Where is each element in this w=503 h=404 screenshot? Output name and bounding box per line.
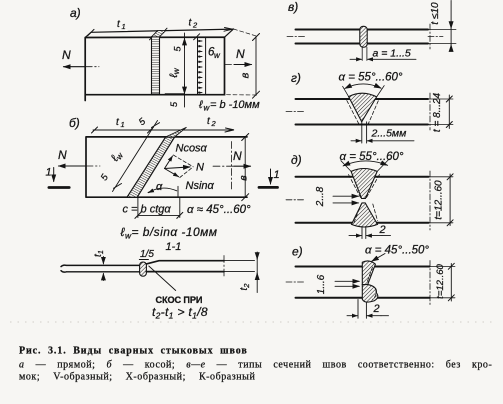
- t=12..60 dimension: [430, 267, 456, 298]
- svg-text:N: N: [233, 149, 242, 163]
- force vector Ncos(a): [165, 156, 173, 169]
- root gap lines: [362, 122, 367, 143]
- svg-text:= b -10мм: = b -10мм: [210, 99, 260, 111]
- svg-text:ℓ: ℓ: [198, 99, 203, 111]
- angle arc: [345, 84, 381, 88]
- K weld: [362, 261, 375, 285]
- bar end dash-dot right: [429, 171, 431, 230]
- force vector N (solid): [165, 167, 191, 169]
- svg-text:t2-t1 > t1/8: t2-t1 > t1/8: [152, 305, 208, 321]
- weld length dimension line: [184, 33, 186, 107]
- svg-text:N: N: [196, 162, 204, 174]
- waist gap dimension 2...8: [333, 195, 359, 197]
- diagonal weld band: [127, 137, 175, 197]
- chamfer dashed lines: [347, 101, 379, 124]
- weld band tip above bar: [166, 127, 187, 137]
- angle side extensions: [343, 86, 385, 97]
- svg-text:α = 45°...50°: α = 45°...50°: [365, 245, 429, 257]
- svg-text:2: 2: [192, 21, 198, 30]
- svg-text:д): д): [291, 153, 302, 167]
- svg-text:а): а): [70, 6, 81, 20]
- svg-text:t=12..60: t=12..60: [435, 263, 446, 298]
- svg-text:в: в: [240, 72, 252, 78]
- b dimension line: [244, 137, 246, 198]
- svg-text:1: 1: [46, 167, 52, 179]
- svg-text:a = 1...5: a = 1...5: [373, 48, 411, 60]
- weld seam W1 (top face part): [152, 30, 166, 36]
- root dimension 2: [347, 315, 357, 317]
- svg-text:СКОС ПРИ: СКОС ПРИ: [156, 295, 203, 305]
- root gap lines below: [362, 227, 366, 239]
- faint scan artifact band: [10, 321, 492, 323]
- chamfer dashed lines: [349, 175, 380, 223]
- parallelogram dashed sides: [173, 155, 193, 178]
- svg-text:α: α: [156, 181, 163, 193]
- svg-text:в: в: [238, 175, 250, 181]
- bar end dash-dot right: [429, 93, 431, 130]
- t2 dimension right: [256, 252, 258, 293]
- svg-text:1...6: 1...6: [316, 274, 327, 294]
- svg-text:2: 2: [211, 119, 217, 128]
- t=12...60 dimension: [429, 177, 454, 223]
- weld bump: [360, 26, 367, 47]
- stress arrow column: [197, 37, 199, 94]
- svg-text:t = 8...24: t = 8...24: [432, 92, 443, 132]
- bar plates: [296, 30, 429, 44]
- svg-text:α ≈ 45°...60°: α ≈ 45°...60°: [187, 204, 251, 216]
- weld seam W1 (front, ladder hatch): [152, 37, 160, 94]
- svg-text:1: 1: [274, 169, 280, 181]
- svg-text:2: 2: [373, 303, 380, 315]
- svg-text:c = b ctgα: c = b ctgα: [123, 204, 172, 216]
- root gap dimension: [351, 140, 361, 142]
- svg-text:1: 1: [121, 120, 125, 129]
- svg-text:2: 2: [379, 224, 386, 236]
- gap dimension 1...6: [335, 280, 359, 282]
- angle arc: [343, 161, 387, 166]
- break mark dash-dot: [223, 256, 225, 278]
- top dimension line t1/5/t2: [93, 129, 234, 131]
- bar plates: [296, 177, 429, 223]
- bar plates: [296, 99, 429, 125]
- svg-text:1-1: 1-1: [166, 241, 182, 253]
- svg-text:α = 55°...60°: α = 55°...60°: [339, 72, 403, 84]
- bar end dash-dot right: [429, 261, 431, 307]
- leader to note: [149, 266, 176, 291]
- weld bump (section): [140, 262, 147, 276]
- angle alpha reference vertical: [177, 186, 179, 197]
- centerline right / break: [429, 24, 431, 49]
- centerline left: [286, 111, 305, 113]
- svg-text:Рис. 3.1. Виды сварных стыковы: Рис. 3.1. Виды сварных стыковых швов: [19, 346, 248, 357]
- svg-text:N: N: [58, 148, 67, 162]
- svg-text:мок; V-образный; Х-образный; К: мок; V-образный; Х-образный; К-образный: [19, 372, 255, 383]
- chamfer dashed: [367, 267, 376, 300]
- bar end dash-dot: [231, 142, 233, 191]
- svg-text:г): г): [291, 71, 301, 85]
- centerline left: [286, 199, 305, 201]
- bar outline: [86, 137, 247, 197]
- svg-text:1/5: 1/5: [140, 249, 154, 260]
- c dimension: [137, 198, 139, 218]
- svg-text:N: N: [236, 47, 245, 61]
- X weld lower half: [352, 203, 378, 227]
- thick plate right with taper: [146, 261, 224, 272]
- centerline left: [287, 36, 306, 38]
- bar top face (3D band): [85, 29, 233, 38]
- bar front face: [85, 37, 224, 100]
- t1/t2 end arrow: [224, 28, 233, 32]
- svg-text:t=12...60: t=12...60: [434, 180, 445, 220]
- root dimension 2: [349, 235, 361, 237]
- centerline left: [286, 281, 305, 283]
- alpha arc: [148, 188, 177, 192]
- force vector Nsin(a): [165, 169, 179, 177]
- svg-text:2...5мм: 2...5мм: [371, 128, 407, 140]
- svg-text:Ncosα: Ncosα: [176, 143, 208, 155]
- svg-text:е): е): [292, 245, 303, 259]
- b dimension line: [255, 37, 257, 96]
- svg-text:а — прямой; б — косой; в—е — т: а — прямой; б — косой; в—е — типы сечени…: [19, 360, 492, 371]
- gap extension lines: [362, 47, 367, 60]
- angle side extensions: [341, 159, 389, 172]
- svg-text:1: 1: [122, 22, 126, 31]
- root gap lines below: [358, 300, 366, 319]
- dimension ticks t1/t2 line: [88, 28, 200, 40]
- bar plates: [296, 267, 430, 298]
- svg-text:б): б): [69, 116, 80, 130]
- svg-text:в): в): [288, 0, 298, 14]
- leader arrow to weld: [372, 254, 385, 262]
- svg-text:Nsinα: Nsinα: [186, 180, 215, 192]
- V weld: [349, 93, 377, 122]
- t<=10 dimension: [428, 30, 456, 44]
- svg-text:t ≤10: t ≤10: [430, 2, 441, 25]
- svg-text:= b/sinα -10мм: = b/sinα -10мм: [132, 225, 218, 239]
- svg-text:N: N: [62, 48, 71, 62]
- t=8..24 dimension: [428, 99, 453, 125]
- a dimension: [350, 58, 362, 60]
- thin plate left: [61, 265, 140, 272]
- X weld upper half: [351, 169, 377, 199]
- lw dimension line (diagonal): [113, 121, 158, 192]
- svg-text:2...8: 2...8: [315, 186, 326, 207]
